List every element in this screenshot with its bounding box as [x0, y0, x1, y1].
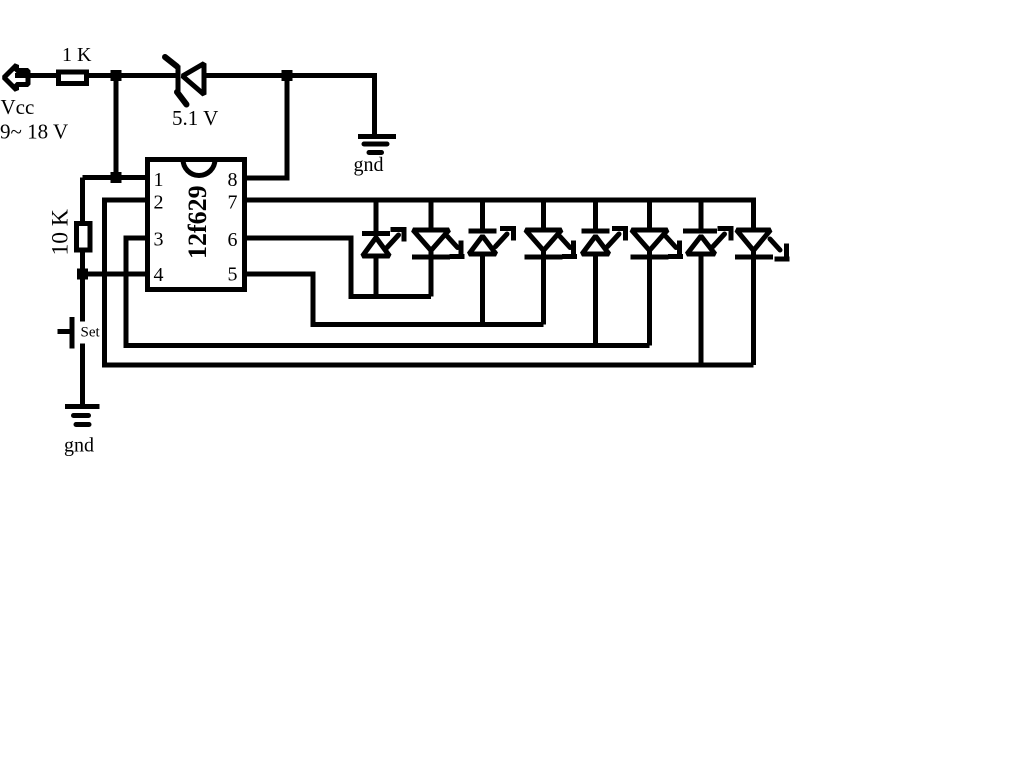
svg-text:5.1 V: 5.1 V: [172, 106, 218, 130]
wire pin 3 left and down to rail: [126, 238, 650, 346]
wire pin 7 rail (anode bus to LED tops): [244, 200, 754, 230]
wire node A down to pin 1 row: [114, 76, 119, 178]
LED D1 triangle: [363, 238, 390, 257]
LED D7 cathode bar: [683, 229, 717, 234]
zener diode D1 top hook: [165, 57, 177, 67]
ground GND2 bars: [65, 407, 100, 425]
pin number 1: [154, 169, 164, 191]
ground GND1 bars: [358, 137, 396, 153]
svg-text:gnd: gnd: [354, 154, 384, 176]
svg-text:1 K: 1 K: [62, 44, 92, 66]
LED D1 arrow: [387, 227, 406, 248]
pin number 7: [228, 192, 238, 214]
terminal Vcc block arrow: [4, 65, 28, 90]
LED D1 top wire: [374, 198, 379, 234]
wire pin 5 right and down to rail: [244, 274, 544, 325]
LED D5 triangle: [582, 236, 609, 254]
IC U1 12f629 body: [148, 160, 245, 290]
LED D4 triangle: [526, 230, 562, 251]
wire R2 bottom to node D: [80, 250, 85, 274]
wire pin 6 right and down to rail: [244, 238, 431, 297]
LED D8 triangle: [737, 230, 771, 251]
svg-text:7: 7: [228, 192, 238, 214]
pin number 5: [228, 264, 238, 286]
svg-text:4: 4: [154, 264, 164, 286]
svg-text:12f629: 12f629: [183, 185, 212, 259]
wire pin 8 to node B: [244, 76, 287, 179]
LED D5 top wire: [593, 198, 598, 232]
LED D1 bottom wire: [374, 256, 379, 297]
LED D6 triangle: [632, 230, 668, 251]
LED D8 top wire: [751, 198, 756, 230]
svg-text:9~ 18 V: 9~ 18 V: [0, 120, 68, 144]
LED D3 arrow: [496, 226, 516, 247]
pin number 3: [154, 229, 164, 251]
wire pin 2 left and down to bottom rail: [105, 200, 754, 365]
resistor R2: [77, 224, 91, 251]
LED D6 bottom wire: [647, 251, 652, 346]
LED D5 arrow: [608, 226, 628, 247]
label Vcc: [1, 95, 35, 119]
LED D7 bottom wire: [699, 254, 704, 365]
LED D1 cathode bar: [362, 231, 390, 236]
LED D6 top wire: [647, 198, 652, 230]
LED D3 cathode bar: [469, 229, 497, 234]
LED D8 anode bar: [735, 255, 773, 260]
wire R1 to zener D1 (Vcc rail): [87, 73, 181, 78]
resistor R1: [59, 72, 87, 84]
label R1 value 1 K: [62, 44, 92, 66]
svg-text:6: 6: [228, 229, 238, 251]
pushbutton SW1 actuator stub: [58, 329, 70, 334]
LED D6 arrow: [666, 237, 683, 257]
junction node B at (287,75.5): [282, 70, 293, 81]
LED D7 triangle: [687, 236, 715, 254]
LED D3 triangle: [469, 236, 496, 254]
svg-text:2: 2: [154, 192, 164, 214]
zener diode D1 triangle: [183, 64, 205, 95]
pin number 2: [154, 192, 164, 214]
LED D6 anode bar: [631, 255, 669, 260]
label R2 value 10 K (rotated): [48, 209, 74, 255]
LED D4 bottom wire: [541, 251, 546, 325]
label Set: [81, 325, 101, 341]
pin number 4: [154, 264, 164, 286]
label gnd (GND2): [64, 435, 94, 457]
label zener value 5.1 V: [172, 106, 218, 130]
LED D2 arrow: [448, 237, 465, 257]
label gnd (GND1): [354, 154, 384, 176]
IC U1 top border restore: [179, 157, 219, 162]
svg-text:gnd: gnd: [64, 435, 94, 457]
LED D3 bottom wire: [480, 254, 485, 325]
svg-text:3: 3: [154, 229, 164, 251]
LED D5 cathode bar: [582, 229, 610, 234]
wire zener to gnd corner (node B rail): [204, 76, 375, 138]
LED D4 arrow: [560, 237, 577, 257]
pushbutton SW1 contact bar: [70, 317, 75, 349]
wire pin 4 to node D: [83, 272, 149, 277]
junction node D at (82.5,274): [77, 269, 88, 280]
pin number 8: [228, 169, 238, 191]
LED D2 triangle: [413, 230, 449, 251]
LED D5 bottom wire: [593, 254, 598, 346]
wire SW1 to GND2: [80, 344, 85, 408]
LED D2 top wire: [429, 198, 434, 230]
wire pin 1 to left corner: [83, 175, 149, 180]
LED D4 top wire: [541, 198, 546, 230]
LED D2 anode bar: [412, 255, 450, 260]
zener diode D1 cathode bar: [176, 66, 181, 94]
IC U1 notch: [183, 160, 215, 176]
junction node A at (116,75.5): [111, 70, 122, 81]
wire corner down to R2 top: [80, 178, 85, 224]
label 9~ 18 V: [0, 120, 68, 144]
zener diode D1 bottom hook: [177, 92, 187, 105]
LED D3 top wire: [480, 198, 485, 232]
LED D4 anode bar: [525, 255, 563, 260]
junction node C at (116,177.5): [111, 172, 122, 183]
LED D8 bottom wire: [751, 251, 756, 366]
LED D7 arrow: [713, 226, 733, 247]
svg-text:Vcc: Vcc: [1, 95, 35, 119]
svg-text:1: 1: [154, 169, 164, 191]
svg-text:Set: Set: [81, 325, 101, 341]
wire node D down to switch SW1: [80, 274, 85, 322]
label 12f629 (rotated): [183, 185, 212, 259]
LED D8 arrow: [770, 239, 790, 259]
LED D2 bottom wire: [429, 251, 434, 297]
svg-text:10 K: 10 K: [48, 209, 74, 255]
svg-text:5: 5: [228, 264, 238, 286]
LED D7 top wire: [699, 198, 704, 232]
wire Vcc terminal to R1: [15, 73, 58, 78]
svg-text:8: 8: [228, 169, 238, 191]
pin number 6: [228, 229, 238, 251]
